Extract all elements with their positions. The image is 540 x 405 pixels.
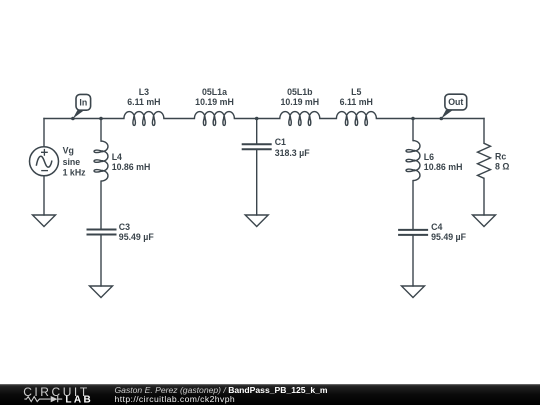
svg-text:L6: L6 [424, 152, 434, 162]
svg-text:318.3 µF: 318.3 µF [275, 148, 311, 158]
svg-text:http://circuitlab.com/ck2hvph: http://circuitlab.com/ck2hvph [115, 394, 236, 404]
node junction dot (L4 branch) [99, 117, 103, 121]
svg-text:C4: C4 [431, 222, 442, 232]
wire: between L3 and 05L1a [164, 118, 195, 120]
inductor 05L1b [280, 112, 320, 126]
wire: top rail from Vg corner to L3 [44, 118, 124, 120]
wire: between L6 and C4 [412, 181, 414, 230]
inductor L4 (vertical) [94, 141, 108, 181]
inductor L6 (vertical) [406, 141, 420, 181]
svg-text:L3: L3 [139, 87, 149, 97]
ground (below C3) [90, 286, 113, 298]
svg-text:Vg: Vg [63, 146, 74, 156]
inductor L3 [124, 112, 164, 126]
svg-text:C3: C3 [119, 222, 130, 232]
svg-text:LAB: LAB [65, 395, 93, 405]
wire: Vg bottom lead [43, 176, 45, 215]
svg-text:6.11 mH: 6.11 mH [127, 97, 160, 107]
wire: C1 bottom lead to ground [256, 149, 258, 215]
node junction dot (L6 branch) [411, 117, 415, 121]
wire: left vertical (Vg top lead) [43, 119, 45, 147]
ground (below Vg) [33, 215, 56, 227]
ground (below Rc) [473, 215, 496, 227]
inductor L5 [336, 112, 376, 126]
svg-text:L5: L5 [351, 87, 361, 97]
wire: Rc bottom lead to ground [483, 178, 485, 215]
label Vg sine 1 kHz [63, 146, 87, 178]
svg-text:05L1b: 05L1b [287, 87, 313, 97]
wire: between 05L1b and L5 [320, 118, 337, 120]
voltage source Vg (sine) [30, 147, 59, 176]
wire: between 05L1a and 05L1b (through node C1) [234, 118, 279, 120]
node flag In [73, 94, 91, 118]
resistor Rc [478, 143, 491, 178]
svg-text:L4: L4 [112, 152, 122, 162]
svg-text:10.19 mH: 10.19 mH [280, 97, 319, 107]
svg-text:10.19 mH: 10.19 mH [195, 97, 234, 107]
inductor 05L1a [194, 112, 234, 126]
svg-text:10.86 mH: 10.86 mH [424, 162, 463, 172]
svg-text:Out: Out [448, 97, 463, 107]
ground (below C1) [245, 215, 268, 227]
svg-text:10.86 mH: 10.86 mH [112, 162, 151, 172]
svg-text:95.49 µF: 95.49 µF [431, 232, 467, 242]
svg-text:In: In [79, 97, 87, 107]
node junction dot (In node) [71, 117, 75, 121]
svg-text:05L1a: 05L1a [202, 87, 227, 97]
wire: C1 top lead [256, 119, 258, 145]
svg-text:C1: C1 [275, 137, 286, 147]
capacitor C4 [398, 230, 428, 235]
svg-text:6.11 mH: 6.11 mH [340, 97, 373, 107]
wire: from L5 to top-right corner [376, 118, 484, 120]
node junction dot (Out node) [440, 117, 444, 121]
wire: L4 top lead [100, 119, 102, 142]
ground (below C4) [402, 286, 425, 298]
svg-text:95.49 µF: 95.49 µF [119, 232, 155, 242]
node junction dot (C1 branch) [255, 117, 259, 121]
capacitor C3 [87, 230, 117, 235]
svg-text:8 Ω: 8 Ω [495, 162, 509, 172]
wire: between L4 and C3 [100, 181, 102, 229]
capacitor C1 [242, 144, 272, 149]
svg-text:sine: sine [63, 157, 81, 167]
wire: right vertical Rc top lead [483, 119, 485, 144]
svg-text:Rc: Rc [495, 152, 506, 162]
svg-text:1 kHz: 1 kHz [63, 167, 87, 177]
CircuitLab logo resistor-diode symbol [24, 396, 62, 402]
wire: L6 top lead [412, 119, 414, 141]
wire: C3 bottom lead to ground [100, 235, 102, 287]
wire: C4 bottom lead to ground [412, 235, 414, 286]
node flag Out [441, 94, 466, 118]
